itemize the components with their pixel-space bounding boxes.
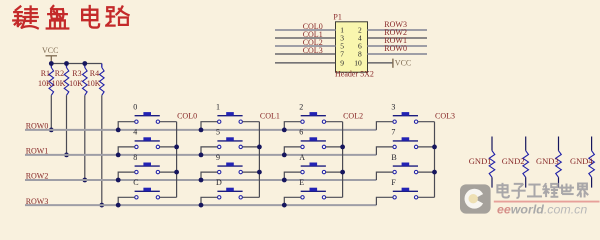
junction COL2 r1 [340,145,345,150]
svg-text:COL2: COL2 [343,112,363,121]
wire P1 pin 9 [275,62,336,64]
junction COL3 r1 [432,145,437,150]
wire key8 to COL0 [160,171,177,173]
wire keyF to ROW3 [376,197,392,205]
switch S3 key 3 [393,115,418,117]
wire ROW3 [25,204,376,206]
wire key2 to COL2 [326,121,343,123]
svg-text:B: B [391,153,396,162]
wire key9 to COL1 [243,171,260,173]
wire key4 to COL0 [160,146,177,148]
junction key8-ROW2 [116,178,121,183]
wire P1 pin 8 [368,53,428,55]
svg-text:VCC: VCC [42,46,58,55]
wire ROW2 [25,179,376,181]
wire COL2 vertical [342,122,344,198]
svg-text:ROW1: ROW1 [26,147,49,156]
switch S8 key 8 [135,165,160,167]
svg-text:eeworld.com.cn: eeworld.com.cn [497,202,587,216]
wire P1 pin 1 [275,29,336,31]
watermark eeworld logo [460,184,491,213]
switch SB key B [393,165,418,167]
connector P1 Header 5X2 [336,22,368,72]
svg-text:COL3: COL3 [303,46,323,55]
junction keyC-ROW3 [116,203,121,208]
resistor GND3 [558,137,560,151]
wire P1 pin 6 [368,45,428,47]
wire key8 to ROW2 [118,172,134,180]
wire VCC rail [51,63,102,65]
wire key9 to ROW2 [201,172,217,180]
svg-text:GND3: GND3 [536,156,559,166]
junction key2-ROW0 [282,127,287,132]
junction COL3 r2 [432,170,437,175]
junction COL0 r2 [174,170,179,175]
junction key5-ROW1 [199,153,204,158]
svg-text:7: 7 [340,50,344,59]
svg-text:C: C [133,178,138,187]
wire key7 to COL3 [418,146,435,148]
svg-text:0: 0 [133,103,137,112]
resistor R3 10K [84,64,86,68]
svg-text:3: 3 [391,103,395,112]
svg-text:P1: P1 [333,13,341,22]
svg-text:COL0: COL0 [177,112,197,121]
switch S1 key 1 [217,115,242,117]
wire key1 to ROW0 [201,122,217,130]
junction COL2 r2 [340,170,345,175]
wire P1 pin 7 [275,53,336,55]
svg-text:VCC: VCC [395,58,411,67]
title 键盘电路 (keyboard circuit) drawn as strokes [13,6,128,29]
switch S7 key 7 [393,140,418,142]
wire keyC to COL0 [160,196,177,198]
svg-text:7: 7 [391,128,395,137]
svg-text:Header 5X2: Header 5X2 [335,70,374,79]
wire key5 to COL1 [243,146,260,148]
junction rail-R3 [82,61,87,66]
wire key2 to ROW0 [284,122,300,130]
switch SF key F [393,190,418,192]
svg-text:ROW0: ROW0 [384,44,407,53]
svg-text:5: 5 [216,128,220,137]
junction rail-R1 [49,61,54,66]
svg-text:COL1: COL1 [260,112,280,121]
power VCC at P1 pin 10 [392,59,394,68]
svg-text:10K: 10K [52,79,66,88]
wire R3 leg to ROW2 [84,95,86,180]
svg-text:1: 1 [216,103,220,112]
wire key3 to ROW0 [376,122,392,130]
junction key6-ROW1 [282,153,287,158]
svg-text:ROW0: ROW0 [26,122,49,131]
switch S4 key 4 [135,140,160,142]
wire keyC to ROW3 [118,197,134,205]
wire P1 pin 5 [275,45,336,47]
svg-text:ROW3: ROW3 [26,197,49,206]
junction R3-ROW2 [82,178,87,183]
svg-text:8: 8 [133,153,137,162]
switch SE key E [301,190,326,192]
wire keyB to ROW2 [376,172,392,180]
junction keyE-ROW3 [282,203,287,208]
wire keyB to COL3 [418,171,435,173]
svg-text:COL3: COL3 [435,112,455,121]
resistor GND1 [491,137,493,151]
wire COL0 vertical [176,122,178,198]
svg-text:R1: R1 [41,69,50,78]
wire R1 leg to ROW0 [50,95,52,130]
wire key1 to COL1 [243,121,260,123]
resistor R2 10K [66,64,68,68]
wire keyF to COL3 [418,196,435,198]
resistor R1 10K [50,64,52,68]
junction rail-R2 [64,61,69,66]
switch SC key C [135,190,160,192]
watermark text 电子工程世界 [497,183,588,198]
wire keyE to ROW3 [284,197,300,205]
junction key1-ROW0 [199,127,204,132]
resistor GND4 [591,137,593,151]
junction R2-ROW1 [64,153,69,158]
junction key9-ROW2 [199,178,204,183]
wire key3 to COL3 [418,121,435,123]
switch S2 key 2 [301,115,326,117]
svg-text:D: D [216,178,222,187]
svg-text:2: 2 [299,103,303,112]
wire key0 to ROW0 [118,122,134,130]
resistor R4 10K [101,64,103,68]
switch S6 key 6 [301,140,326,142]
junction COL1 r2 [257,170,262,175]
junction keyD-ROW3 [199,203,204,208]
svg-text:9: 9 [340,59,344,68]
wire COL1 vertical [258,122,260,198]
svg-text:8: 8 [358,50,362,59]
wire ROW0 [25,129,376,131]
junction R1-ROW0 [49,127,54,132]
svg-text:10K: 10K [87,79,101,88]
watermark red underline [494,201,600,203]
wire key7 to ROW1 [376,147,392,155]
wire P1 pin 3 [275,37,336,39]
svg-text:F: F [391,178,396,187]
wire P1 pin 4 [368,37,428,39]
switch S5 key 5 [217,140,242,142]
svg-text:GND4: GND4 [570,156,593,166]
junction keyA-ROW2 [282,178,287,183]
wire keyA to COL2 [326,171,343,173]
switch SA key A [301,165,326,167]
junction R4-ROW3 [99,203,104,208]
resistor GND2 [525,137,527,151]
svg-text:10K: 10K [69,79,83,88]
wire R4 leg to ROW3 [101,95,103,205]
svg-text:E: E [299,178,304,187]
wire key6 to COL2 [326,146,343,148]
wire key5 to ROW1 [201,147,217,155]
wire keyA to ROW2 [284,172,300,180]
junction key4-ROW1 [116,153,121,158]
svg-text:R3: R3 [72,69,81,78]
svg-text:9: 9 [216,153,220,162]
power VCC [46,55,58,57]
junction COL0 r1 [174,145,179,150]
wire P1 pin 2 [368,29,428,31]
svg-text:A: A [299,153,305,162]
svg-text:6: 6 [299,128,303,137]
svg-text:R4: R4 [90,69,99,78]
junction key0-ROW0 [116,127,121,132]
wire key4 to ROW1 [118,147,134,155]
svg-text:GND2: GND2 [502,156,525,166]
svg-text:4: 4 [133,128,137,137]
wire keyD to COL1 [243,196,260,198]
svg-text:GND1: GND1 [469,156,492,166]
svg-text:10K: 10K [38,79,52,88]
wire R2 leg to ROW1 [66,95,68,155]
svg-text:ROW2: ROW2 [26,172,49,181]
wire COL3 vertical [434,122,436,198]
switch S0 key 0 [135,115,160,117]
wire keyD to ROW3 [201,197,217,205]
wire key6 to ROW1 [284,147,300,155]
switch SD key D [217,190,242,192]
junction COL1 r1 [257,145,262,150]
wire key0 to COL0 [160,121,177,123]
wire keyE to COL2 [326,196,343,198]
wire ROW1 [25,154,376,156]
wire P1 pin 10 [368,62,393,64]
svg-text:R2: R2 [55,69,64,78]
svg-text:10: 10 [354,59,362,68]
switch S9 key 9 [217,165,242,167]
